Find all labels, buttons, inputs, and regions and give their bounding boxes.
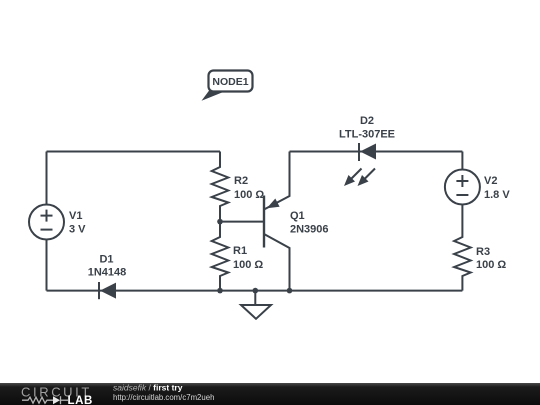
resistor R1 bbox=[212, 222, 229, 291]
transistor Q1 bbox=[264, 152, 290, 291]
footer bar bbox=[0, 383, 540, 405]
label R3 value bbox=[476, 246, 506, 271]
ground bbox=[241, 291, 271, 319]
voltage source V2 bbox=[445, 170, 480, 205]
resistor R2 bbox=[212, 152, 229, 222]
label R1 value bbox=[233, 245, 263, 271]
label D1 value bbox=[88, 254, 127, 279]
label D2 value bbox=[339, 115, 395, 141]
svg-text:http://circuitlab.com/c7m2ueh: http://circuitlab.com/c7m2ueh bbox=[113, 393, 214, 402]
svg-text:saidsefik / first try: saidsefik / first try bbox=[113, 383, 183, 393]
logo waveform bbox=[22, 396, 68, 404]
label Q1 value bbox=[290, 210, 329, 236]
wire base bbox=[220, 221, 264, 223]
node NODE1 callout bbox=[202, 71, 253, 101]
node junction at R2/R1/base bbox=[217, 219, 223, 225]
resistor R3 bbox=[454, 205, 471, 291]
node junction at collector/bottom rail bbox=[287, 288, 293, 294]
node junction at R1 bottom bbox=[217, 288, 223, 294]
wire bottom rail bbox=[47, 290, 463, 292]
diode D1 bbox=[99, 282, 116, 299]
wire V1 top lead bbox=[46, 152, 48, 205]
label V2 value bbox=[484, 175, 510, 201]
voltage source V1 bbox=[29, 205, 64, 240]
svg-text:LAB: LAB bbox=[68, 395, 93, 405]
label V1 value bbox=[69, 210, 86, 236]
wire top-left rail bbox=[47, 151, 221, 153]
wire top-right rail bbox=[290, 151, 463, 153]
node junction at ground tap bbox=[253, 288, 259, 294]
label R2 value bbox=[234, 175, 264, 201]
LED D2 bbox=[344, 143, 376, 186]
wire V2 top lead bbox=[461, 152, 463, 170]
wire V1 bottom lead bbox=[46, 240, 48, 291]
